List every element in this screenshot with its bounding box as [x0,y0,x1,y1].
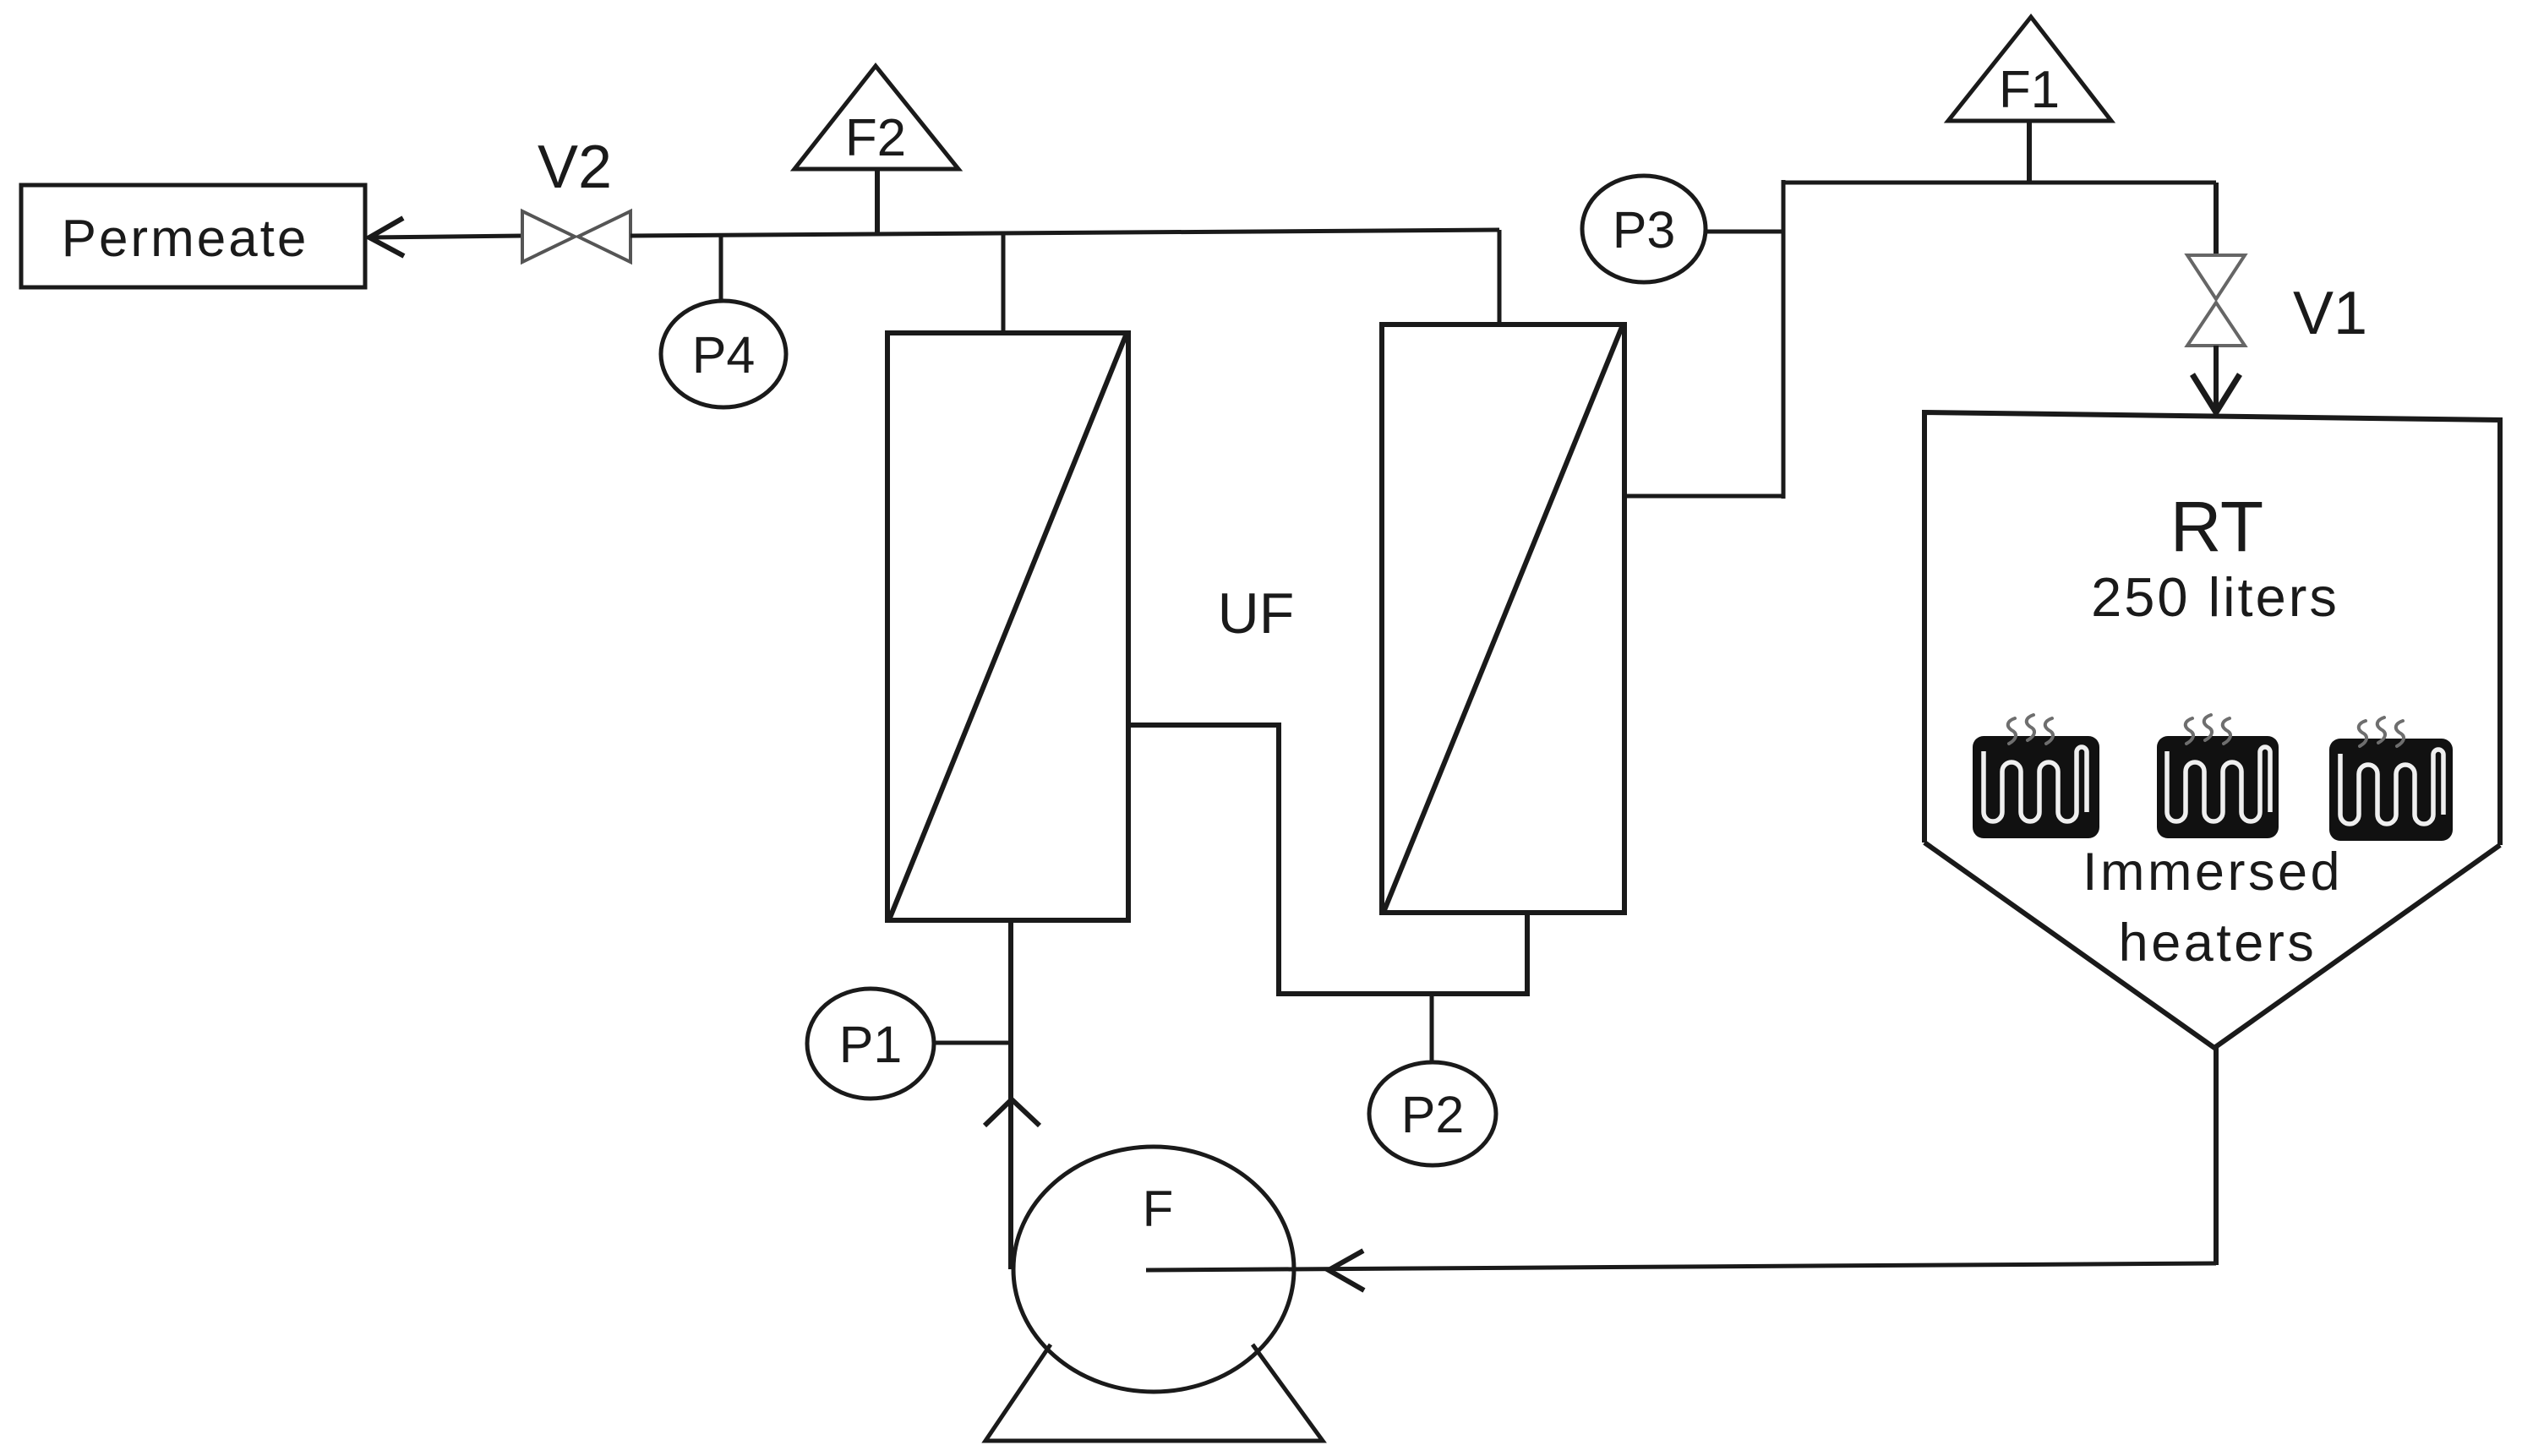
tank RT [1924,412,2500,1048]
wire tank funnel outlet drop [2214,1046,2219,1265]
immersed heater 3 [2329,717,2453,841]
svg-text:UF: UF [1218,581,1295,646]
wire F1 stem [2027,121,2032,183]
membrane module UF2 [1382,324,1624,913]
gauge P3 [1582,176,1706,282]
wire P4 tap [719,235,723,301]
immersed heater 2 [2157,715,2279,838]
svg-text:P3: P3 [1613,201,1676,259]
wire return line from tank to pump [1146,1263,2216,1270]
svg-text:Immersed: Immersed [2083,843,2343,902]
svg-text:F2: F2 [845,109,906,167]
wire P1 connector [934,1041,1011,1045]
gauge P1 [807,989,934,1099]
wire membrane2 outlet [1624,494,1783,499]
wire permeate line [368,236,522,237]
svg-text:P1: P1 [839,1016,903,1073]
pump base [985,1344,1323,1441]
wire membrane1 outlet to membrane2 [1128,725,1527,994]
instrument F2 [794,66,958,169]
wire membrane1 feed top [1002,232,1006,333]
svg-text:heaters: heaters [2119,913,2317,973]
valve V1 [2187,255,2367,347]
wire P2 tap [1430,994,1434,1062]
wire down arrowhead into tank [2192,374,2240,412]
gauge P2 [1369,1062,1496,1165]
immersed heater 1 [1973,715,2099,838]
svg-text:P4: P4 [692,326,756,384]
svg-text:P2: P2 [1401,1086,1465,1143]
wire top right pipe [1783,181,2216,185]
wire P3 riser [1782,180,1786,499]
svg-text:Permeate: Permeate [62,210,309,268]
svg-text:F1: F1 [1999,61,2060,119]
svg-text:V1: V1 [2293,280,2367,347]
gauge P4 [661,301,786,407]
valve V2 [522,134,630,262]
wire F2 stem [875,169,880,233]
membrane module UF1 [887,333,1128,920]
wire P3 connector [1706,230,1783,234]
wire up arrowhead [985,1099,1040,1126]
wire permeate line right of V2 [630,230,1499,236]
svg-text:V2: V2 [538,134,612,201]
wire V1 riser [2214,183,2219,255]
wire V1 to tank [2214,346,2219,412]
pump F [1013,1147,1294,1392]
wire permeate arrowhead [369,218,404,256]
wire return arrowhead [1329,1251,1364,1290]
svg-text:F: F [1143,1181,1174,1237]
svg-text:RT: RT [2170,487,2263,566]
wire membrane2 riser [1498,230,1502,324]
instrument F1 [1948,17,2111,121]
permeate box [21,185,365,287]
svg-text:250 liters: 250 liters [2091,566,2339,628]
wire pump to membrane1 [1008,920,1013,1269]
